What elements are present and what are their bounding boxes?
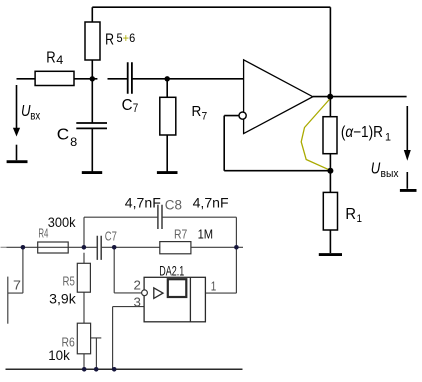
svg-text:C: C (122, 97, 133, 114)
svg-text:R: R (46, 50, 55, 67)
svg-text:R: R (105, 32, 114, 49)
svg-text:R4: R4 (38, 226, 48, 240)
svg-text:U: U (371, 161, 381, 178)
svg-text:1: 1 (211, 278, 217, 293)
svg-text:7: 7 (202, 110, 208, 122)
svg-text:R5: R5 (63, 273, 75, 288)
svg-text:C: C (57, 127, 69, 144)
svg-text:4,7nF: 4,7nF (125, 195, 161, 210)
svg-text:1: 1 (357, 213, 363, 225)
svg-text:10k: 10k (48, 348, 70, 363)
svg-text:4,7nF: 4,7nF (193, 195, 229, 210)
svg-text:DA2.1: DA2.1 (159, 263, 184, 278)
svg-text:8: 8 (70, 135, 77, 149)
svg-text:7: 7 (13, 277, 21, 292)
svg-text:300k: 300k (48, 215, 76, 230)
svg-text:(α−1)R: (α−1)R (341, 124, 383, 141)
svg-text:3,9k: 3,9k (49, 291, 76, 306)
svg-text:1: 1 (385, 132, 391, 144)
svg-text:R6: R6 (62, 334, 75, 349)
svg-text:R: R (345, 206, 356, 223)
svg-text:1M: 1M (198, 226, 214, 241)
svg-text:7: 7 (133, 101, 139, 115)
svg-text:2: 2 (134, 277, 141, 292)
svg-text:4: 4 (56, 53, 63, 67)
svg-text:R: R (192, 103, 202, 120)
svg-text:вых: вых (381, 168, 399, 180)
svg-text:5+6: 5+6 (117, 33, 136, 45)
svg-text:C7: C7 (105, 228, 117, 243)
svg-text:R7: R7 (174, 226, 187, 241)
svg-text:3: 3 (134, 294, 141, 309)
svg-text:C8: C8 (165, 198, 182, 213)
svg-text:вх: вх (30, 111, 40, 123)
